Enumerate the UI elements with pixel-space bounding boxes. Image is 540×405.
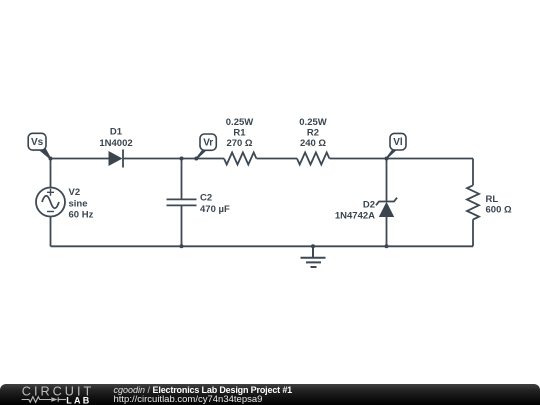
wire C2 branch upper	[181, 159, 183, 200]
svg-text:600 Ω: 600 Ω	[486, 204, 512, 215]
svg-text:240 Ω: 240 Ω	[300, 138, 326, 149]
diode D1 triangle	[109, 151, 123, 166]
node dot Vr	[194, 157, 198, 161]
wire between R1 and R2	[257, 158, 298, 160]
svg-text:R1: R1	[233, 127, 246, 138]
wire left rail lower: V2 bottom to bottom rail	[50, 217, 52, 247]
zener D2 cathode bar with hooks	[376, 198, 397, 206]
V2 minus sign	[47, 211, 54, 213]
wire bottom rail	[51, 245, 474, 247]
flag box Vr	[200, 134, 216, 150]
flag pointer Vs	[39, 147, 52, 160]
wire D2 branch upper	[386, 159, 388, 202]
svg-text:C2: C2	[200, 192, 212, 203]
node dot C2 bottom junction	[180, 244, 184, 248]
wire right rail upper	[472, 159, 474, 186]
svg-text:R2: R2	[307, 127, 319, 138]
V2 plus sign	[47, 189, 54, 196]
svg-text:60 Hz: 60 Hz	[69, 210, 94, 221]
node dot ground junction	[311, 244, 315, 248]
svg-text:V2: V2	[69, 187, 81, 198]
flag pointer Vl	[386, 149, 398, 159]
node dot Vl	[385, 157, 389, 161]
svg-text:1N4742A: 1N4742A	[335, 211, 375, 222]
flag box Vl	[390, 133, 406, 150]
wire top rail left: Vs node to D1 anode	[51, 158, 109, 160]
svg-text:D2: D2	[363, 200, 375, 211]
svg-text:470 µF: 470 µF	[200, 204, 230, 215]
logo resistor squiggle and diode	[22, 397, 66, 403]
ground symbol	[301, 246, 326, 267]
V2 sine wave	[42, 196, 59, 209]
svg-text:Vs: Vs	[31, 137, 44, 148]
wire right rail lower	[472, 219, 474, 246]
flag pointer Vr	[196, 150, 208, 160]
diode D1 cathode bar	[122, 150, 124, 168]
logo diode triangle	[51, 397, 57, 402]
svg-text:Vr: Vr	[203, 138, 213, 149]
node dot C2 top junction	[180, 157, 184, 161]
footer bar	[0, 384, 540, 405]
node dot D2 bottom junction	[385, 244, 389, 248]
svg-text:0.25W: 0.25W	[299, 117, 326, 128]
wire left rail upper: Vs node down to V2 top	[50, 159, 52, 188]
svg-text:1N4002: 1N4002	[99, 138, 132, 149]
wire C2 branch lower	[181, 205, 183, 246]
wire R2 to right rail top corner	[330, 158, 474, 160]
node dot Vs	[49, 157, 53, 161]
voltage source V2 circle	[36, 188, 65, 217]
wire top rail mid: D1 cathode to R1	[123, 158, 224, 160]
svg-text:D1: D1	[110, 126, 123, 137]
wire D2 branch lower	[386, 217, 388, 246]
resistor RL zigzag	[467, 185, 479, 219]
svg-text:0.25W: 0.25W	[226, 117, 253, 128]
zener D2 triangle	[379, 202, 394, 217]
svg-text:270 Ω: 270 Ω	[226, 138, 252, 149]
flag box Vs	[28, 133, 46, 150]
footer text	[113, 384, 115, 386]
svg-text:LAB: LAB	[66, 395, 91, 405]
svg-text:sine: sine	[69, 198, 88, 209]
CircuitLab logo	[0, 384, 100, 405]
capacitor C2 top plate	[167, 198, 197, 200]
resistor R2 zigzag	[297, 153, 329, 165]
svg-text:Vl: Vl	[393, 137, 403, 148]
capacitor C2 bottom plate	[167, 204, 197, 206]
resistor R1 zigzag	[224, 153, 256, 165]
